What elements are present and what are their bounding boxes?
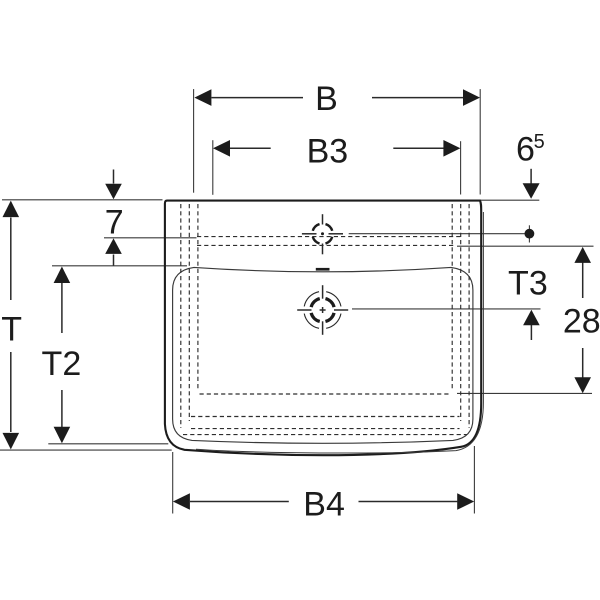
svg-text:T: T: [1, 311, 22, 349]
svg-text:B4: B4: [303, 485, 345, 523]
svg-text:T3: T3: [508, 264, 548, 302]
svg-text:B3: B3: [307, 132, 349, 170]
svg-text:6: 6: [516, 131, 535, 169]
svg-text:5: 5: [534, 131, 545, 153]
svg-text:B: B: [315, 80, 338, 118]
svg-text:28: 28: [563, 302, 600, 340]
svg-text:T2: T2: [42, 345, 82, 383]
svg-text:7: 7: [105, 204, 124, 242]
